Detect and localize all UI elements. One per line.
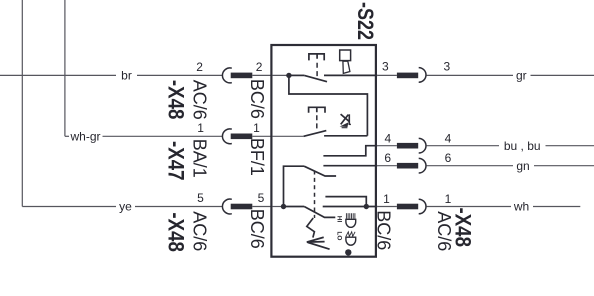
wire: cell2 entry inside box xyxy=(272,135,303,137)
connector pin 4 contact bar xyxy=(397,143,418,149)
icon: light switch symbol (square) xyxy=(340,50,351,61)
connector pin 1 right socket arc xyxy=(419,199,426,214)
connector pin 6 contact bar xyxy=(397,163,418,169)
wire: cell3 riser and upper pivot xyxy=(284,166,305,206)
wire pin4 box to bar xyxy=(377,145,397,147)
wire gn (connector to label) xyxy=(427,165,514,167)
wire: cell1 entry inside box xyxy=(272,74,289,76)
detent bracket cell1 xyxy=(309,54,324,61)
wire: left vertical bus 2 xyxy=(64,0,66,136)
detent bracket cell2 xyxy=(309,107,325,113)
junction dot cell3 right xyxy=(364,204,369,209)
svg-text:-X47: -X47 xyxy=(164,141,189,181)
wire pin1right box to bar xyxy=(377,206,397,208)
wire bu,bu (connector to label) xyxy=(427,145,500,147)
dashed actuator link cell1 xyxy=(316,63,318,76)
wire gn (label to edge) xyxy=(534,165,594,167)
connector pin 3 socket arc xyxy=(419,68,426,83)
wire bu,bu (label to edge) xyxy=(546,145,594,147)
junction dot cell3 left xyxy=(281,204,286,209)
switch contact 3 lower pivot line xyxy=(284,206,305,208)
connector -X48 pin 2 contact bar xyxy=(231,73,253,79)
svg-text:1: 1 xyxy=(253,121,260,135)
svg-text:wh: wh xyxy=(513,200,529,214)
svg-text:4: 4 xyxy=(384,132,391,146)
svg-text:BC/6: BC/6 xyxy=(374,210,394,250)
svg-text:BA/1: BA/1 xyxy=(190,139,210,178)
svg-text:bu , bu: bu , bu xyxy=(504,139,541,153)
wire wh-gr (segment to connector) xyxy=(103,135,224,137)
switch unit box -S22 xyxy=(271,45,376,257)
wire gr (connector to label) xyxy=(427,74,514,76)
wire ye (segment to connector) xyxy=(135,206,223,208)
wire: left vertical bus 1 xyxy=(21,0,23,207)
svg-text:3: 3 xyxy=(382,60,389,74)
icon: high beam lamp hatch xyxy=(346,213,355,219)
svg-text:AC/6: AC/6 xyxy=(189,211,209,251)
svg-text:BF/1: BF/1 xyxy=(247,138,267,176)
wire ye (elbow from bus 1) xyxy=(22,206,116,208)
svg-text:gr: gr xyxy=(516,69,527,83)
wire pin6 box to bar xyxy=(377,165,397,167)
connector -X47 pin 1 socket arc xyxy=(222,129,231,144)
svg-text:2: 2 xyxy=(256,60,263,74)
switch contact 1 blade xyxy=(304,75,327,81)
switch contact 3 lower blade xyxy=(304,207,335,218)
svg-text:2: 2 xyxy=(196,60,203,74)
wire gr (label to edge) xyxy=(531,74,594,76)
svg-text:1: 1 xyxy=(445,192,452,206)
svg-text:BC/6: BC/6 xyxy=(247,79,267,119)
wire wh (label to end) xyxy=(533,206,580,208)
svg-text:-X48: -X48 xyxy=(451,208,476,248)
icon: low beam lamp hatch xyxy=(346,232,355,237)
spring return zigzag xyxy=(307,218,315,238)
wire: cell3 upper return step to output xyxy=(325,197,366,207)
wire pin1 bar to box xyxy=(252,135,272,137)
wire br (right segment to connector) xyxy=(137,74,223,76)
dashed actuator link cell2 xyxy=(316,115,318,131)
svg-text:HI: HI xyxy=(335,216,342,223)
svg-text:gn: gn xyxy=(516,159,529,173)
switch contact 3 upper blade xyxy=(304,166,336,176)
switch contact 2 blade xyxy=(304,131,327,137)
svg-text:AC/6: AC/6 xyxy=(190,80,210,120)
connector pin 6 socket arc xyxy=(419,158,426,173)
connector pin 4 socket arc xyxy=(419,138,426,153)
connector -X47 pin 1 contact bar xyxy=(231,134,253,140)
connector -X48 pin 5 socket arc xyxy=(222,199,231,214)
switch contact 1 pivot line xyxy=(289,74,304,76)
wire: pin6 inner line xyxy=(323,165,377,167)
svg-text:4: 4 xyxy=(445,132,452,146)
wire: cell3 entry (ye) inside box xyxy=(272,206,283,208)
indicator dot xyxy=(345,249,351,255)
icon: parking light symbol (X glyph) xyxy=(341,114,351,128)
spring return arrowhead xyxy=(307,237,325,242)
wire: pin4 inner step xyxy=(323,146,377,156)
svg-text:1: 1 xyxy=(197,121,204,135)
wire wh (connector to label) xyxy=(427,206,512,208)
svg-text:3: 3 xyxy=(444,60,451,74)
svg-text:-X48: -X48 xyxy=(164,212,189,252)
connector -X48 pin 5 contact bar xyxy=(231,204,253,210)
icon: low beam lamp body xyxy=(346,237,356,245)
wire pin3 box to bar xyxy=(377,74,397,76)
junction dot cell1 xyxy=(286,73,291,78)
svg-text:6: 6 xyxy=(384,151,391,165)
switch contact 2 fixed line xyxy=(324,135,367,137)
svg-text:LO: LO xyxy=(335,231,342,240)
svg-text:1: 1 xyxy=(383,192,390,206)
wire wh-gr (elbow from bus 2) xyxy=(65,135,69,137)
wire: cell3 output line to pin 1 xyxy=(323,206,378,208)
svg-text:-S22: -S22 xyxy=(353,2,378,40)
wire pin2 bar to box xyxy=(252,74,272,76)
icon: light switch symbol (tail) xyxy=(343,61,350,73)
svg-text:wh-gr: wh-gr xyxy=(69,130,100,144)
svg-text:6: 6 xyxy=(445,151,452,165)
svg-text:5: 5 xyxy=(197,191,204,205)
connector pin 3 contact bar xyxy=(397,73,418,79)
connector pin 1 right contact bar xyxy=(397,204,418,210)
svg-text:5: 5 xyxy=(258,191,265,205)
wire br (left segment) xyxy=(0,74,116,76)
svg-text:ye: ye xyxy=(119,200,132,214)
svg-text:-X48: -X48 xyxy=(164,80,189,120)
dashed actuator link cell3 xyxy=(314,171,316,219)
svg-text:br: br xyxy=(121,69,132,83)
spring return stroke xyxy=(308,242,330,249)
connector -X48 pin 2 socket arc xyxy=(222,68,231,83)
switch contact 1 fixed line to pin 3 xyxy=(324,74,377,76)
wire pin5 bar to box xyxy=(252,206,272,208)
wire: U-loop from cell1 junction to cell2 fixed contact xyxy=(289,77,368,136)
svg-text:BC/6: BC/6 xyxy=(247,209,267,249)
icon: high beam lamp body xyxy=(346,219,356,227)
